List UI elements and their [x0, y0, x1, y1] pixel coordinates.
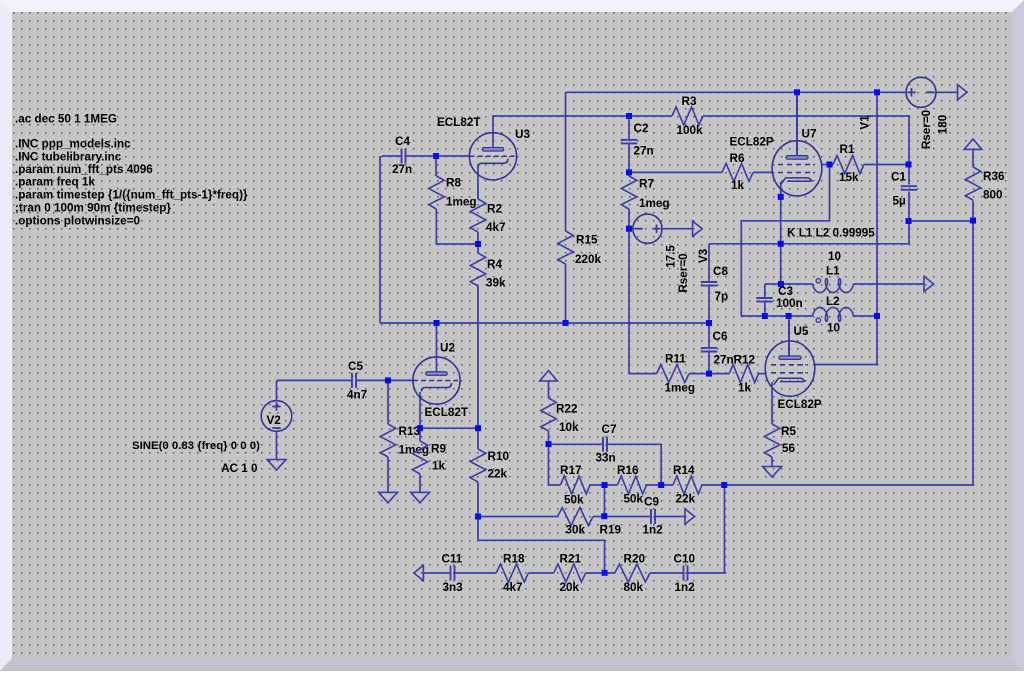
capacitor C11 [451, 566, 455, 581]
svg-text:R5: R5 [781, 425, 796, 438]
port flag above R36 [964, 139, 982, 150]
value 10 of L1 [828, 250, 842, 263]
svg-text:R3: R3 [682, 95, 697, 108]
value 80k of R20 [624, 581, 644, 594]
wire C10 to corner up [688, 485, 725, 573]
label L1 [826, 265, 840, 278]
svg-text:4k7: 4k7 [503, 581, 523, 594]
label V1 [859, 115, 872, 130]
wire C4 left vertical rail [379, 156, 381, 323]
label R11 [665, 352, 686, 365]
wire R1 to C1 top [864, 164, 909, 166]
label C10 [674, 552, 696, 565]
label R6 [730, 152, 745, 165]
wire R13 top lead [387, 380, 389, 424]
resistor R2 [470, 199, 485, 232]
wire U3 cathode to R2 [477, 166, 479, 199]
svg-text:U5: U5 [794, 325, 809, 338]
wire V3 node down to R11 corner [629, 229, 657, 374]
label U7 [802, 128, 817, 141]
label R14 [673, 464, 695, 477]
wire top supply rail [566, 91, 907, 93]
svg-text:20k: 20k [560, 581, 580, 594]
wire U7 grid to R1 [822, 164, 834, 166]
value 1k of R9 [432, 459, 446, 472]
tube U2 ECL82T triode [413, 357, 460, 404]
wire R16 to R14 [647, 484, 674, 486]
resistor R10 [470, 449, 485, 482]
capacitor C8 [701, 282, 717, 286]
junction node R19-C9 [601, 513, 607, 519]
value 39k of R4 [486, 277, 506, 290]
svg-text:R20: R20 [624, 552, 646, 565]
junction node U5 plate on L2 row [786, 313, 792, 319]
value SINE of V2 [132, 440, 260, 452]
label R15 [576, 234, 598, 247]
wire R12 to U5 grid [759, 373, 767, 375]
value 100k of R3 [677, 124, 704, 137]
value 22k of R10 [488, 468, 508, 481]
svg-text:.INC ppp_models.inc: .INC ppp_models.inc [15, 138, 131, 151]
label R17 [560, 464, 581, 477]
wire R18 to R21 [528, 572, 553, 574]
label C9 [644, 495, 659, 508]
label ECL82P of U5 [778, 398, 822, 411]
wire L1 row left [765, 283, 813, 285]
junction node U2 plate on bottom rail [434, 320, 440, 326]
value 3n3 of C11 [443, 581, 464, 594]
wire C4 to R8 junction to U3 grid [406, 155, 471, 157]
wire R7 top lead [628, 172, 630, 176]
wire R7 bottom to V3 node [628, 209, 630, 229]
tube U3 ECL82T triode [469, 133, 516, 180]
label R8 [446, 177, 461, 190]
svg-text:R18: R18 [503, 552, 525, 565]
svg-text:27n: 27n [714, 353, 734, 366]
capacitor C1 [901, 186, 917, 190]
wire C2 column top [628, 116, 630, 140]
wire R11 to R12 [689, 373, 729, 375]
junction node R10-R19 row [475, 514, 481, 520]
capacitor C5 [352, 373, 356, 388]
value 1n2 of C9 [643, 524, 664, 537]
value 10 of L2 [827, 322, 841, 335]
wire V2 top lead [276, 380, 278, 401]
wire C5 to U2 grid [356, 379, 414, 381]
svg-text:L1: L1 [826, 265, 840, 278]
resistor R16 [617, 476, 646, 494]
resistor R4 [470, 253, 485, 286]
wire R4 down through rail to R10 node [477, 286, 479, 449]
svg-text:17.5: 17.5 [665, 245, 678, 268]
svg-text:R1: R1 [840, 143, 855, 156]
svg-text:27n: 27n [392, 163, 412, 176]
value 4k7 of R18 [503, 581, 523, 594]
svg-text:U3: U3 [515, 128, 530, 141]
directive text '.options plotwinsize=0' [15, 215, 141, 228]
wire R8 bottom to R2-R4 node [436, 209, 478, 244]
junction node R17-R16 [602, 482, 608, 488]
wire R19 row left [478, 516, 558, 518]
svg-text:R8: R8 [446, 177, 461, 190]
value 20k of R21 [560, 581, 580, 594]
label ECL82T of U3 [437, 116, 481, 129]
svg-text:39k: 39k [486, 277, 506, 290]
resistor R21 [554, 564, 586, 582]
wire grid node down and across to L2 row [741, 165, 829, 317]
svg-text:R10: R10 [488, 450, 510, 463]
wire L2 row left [741, 315, 812, 317]
ground at R13 [379, 492, 398, 503]
value 1k of R6 [731, 179, 745, 192]
label U3 [515, 128, 530, 141]
svg-text:30k: 30k [566, 524, 586, 537]
junction node C2 top on B+ feed [626, 113, 632, 119]
wire V2 to C5 [277, 379, 353, 381]
wire C7 right to R16-R14 node [607, 444, 661, 485]
tube U5 ECL82P pentode [765, 341, 815, 396]
value 800 of R36 [983, 189, 1003, 202]
svg-text:33n: 33n [596, 451, 616, 464]
resistor R13 [380, 424, 395, 457]
wire C1 column [908, 165, 910, 185]
svg-text:K L1 L2 0.99995: K L1 L2 0.99995 [787, 227, 875, 240]
capacitor C10 [684, 566, 688, 581]
svg-text:R14: R14 [673, 464, 695, 477]
wire C9 to port [655, 516, 685, 518]
svg-text:1meg: 1meg [665, 382, 696, 395]
resistor R11 [657, 365, 689, 383]
wire C4 row to U3 grid [382, 155, 402, 157]
directive text '.param freq 1k' [15, 176, 95, 189]
value Rser=0 of V1 [920, 109, 933, 149]
svg-text:C7: C7 [602, 423, 617, 436]
resistor R17 [560, 476, 590, 494]
wire C9 left [605, 516, 652, 518]
wire U2 cathode lead [419, 392, 421, 441]
junction node C8-C6 on bottom rail [706, 320, 712, 326]
wire V1 to port [936, 91, 958, 93]
svg-text:C6: C6 [713, 330, 728, 343]
svg-text:15k: 15k [839, 171, 859, 184]
svg-text:27n: 27n [634, 145, 654, 158]
wire R10 bottom [477, 482, 479, 517]
label R4 [487, 258, 502, 271]
wire R15 column top [565, 116, 567, 231]
svg-text:1k: 1k [738, 381, 752, 394]
svg-text:5µ: 5µ [893, 194, 907, 207]
value 50k of R16 [624, 492, 644, 505]
junction node R15 bottom on rail [563, 320, 569, 326]
svg-text:U7: U7 [802, 128, 817, 141]
value 7p of C8 [715, 290, 729, 303]
label R16 [617, 464, 639, 477]
junction node C3 bottom on L2 row [762, 313, 768, 319]
svg-text:ECL82T: ECL82T [425, 406, 469, 419]
wire R5 to ground [771, 457, 773, 467]
window frame bevel right [1012, 0, 1024, 671]
wire R36 top lead [972, 149, 974, 167]
svg-text:ECL82P: ECL82P [730, 136, 774, 149]
wire R15 column bottom [565, 264, 567, 323]
wire left port to C11 [423, 572, 450, 574]
wire C7 node down to R17 [549, 444, 561, 485]
wire top rail [565, 92, 567, 116]
value 180 of V1 [937, 114, 950, 134]
svg-text:50k: 50k [564, 494, 584, 507]
svg-text:.ac dec 50 1 1MEG: .ac dec 50 1 1MEG [15, 113, 117, 126]
junction node R7-V3 [626, 226, 632, 232]
label C7 [602, 423, 617, 436]
port flag at L1 output [924, 276, 934, 291]
resistor R22 [541, 398, 556, 431]
wire R13 to ground [387, 457, 389, 492]
wire U2 plate lead [436, 323, 438, 373]
value 1meg of R11 [665, 382, 696, 395]
svg-text:.INC tubelibrary.inc: .INC tubelibrary.inc [15, 151, 122, 164]
junction node B+ column on top rail [874, 89, 880, 95]
value 33n of C7 [596, 451, 616, 464]
wire U3 plate lead and B+ feed to R3 [493, 116, 672, 148]
capacitor C2 [621, 140, 637, 144]
wire R36 bottom lead [972, 200, 974, 221]
wire C11 to R18 [455, 572, 497, 574]
label L2 [826, 295, 840, 308]
capacitor C4 [402, 149, 406, 164]
wire V2 bottom to ground [276, 432, 278, 460]
junction node R14 right feedback [721, 482, 727, 488]
value 1k of R12 [738, 381, 752, 394]
label R5 [781, 425, 796, 438]
label R7 [639, 178, 654, 191]
wire R22 port lead [548, 381, 550, 398]
resistor R19 [558, 508, 593, 526]
label R10 [488, 450, 510, 463]
directive text '.ac dec 50 1 1MEG' [15, 113, 117, 126]
svg-text:R21: R21 [560, 552, 582, 565]
label U2 [440, 341, 455, 354]
wire L2 right to B+ column [854, 315, 878, 317]
resistor R12 [729, 365, 758, 383]
junction node U7 plate on top rail [794, 89, 800, 95]
directive text '.param num_fft_pts 4096' [15, 163, 153, 176]
value 4n7 of C5 [347, 389, 367, 402]
svg-text:;tran 0 100m 90m {timestep}: ;tran 0 100m 90m {timestep} [15, 202, 171, 215]
svg-text:R6: R6 [730, 152, 745, 165]
wire R22 bottom to C7 node [548, 431, 550, 444]
label R19 [600, 524, 622, 537]
svg-text:C4: C4 [395, 135, 410, 148]
wire U5 plate lead [788, 316, 790, 356]
voltage source V1 [906, 77, 936, 107]
junction node cathode wire on R10 column [475, 425, 481, 431]
svg-text:R9: R9 [431, 443, 446, 456]
wire B+ column right [815, 92, 878, 364]
directive text '.INC tubelibrary.inc' [15, 151, 122, 164]
svg-text:V2: V2 [267, 414, 282, 427]
value Rser=0 of V3 [677, 253, 690, 293]
svg-text:C11: C11 [442, 552, 463, 565]
wire V3 to port [662, 228, 693, 230]
svg-text:1n2: 1n2 [643, 524, 664, 537]
wire R14 to feedback column [702, 221, 973, 485]
label C8 [713, 265, 728, 278]
port flag at V3 node [693, 221, 703, 236]
resistor R36 [965, 167, 980, 200]
svg-text:56: 56 [782, 442, 796, 455]
svg-text:R11: R11 [665, 352, 686, 365]
value 27n of C4 [392, 163, 412, 176]
svg-text:Rser=0: Rser=0 [920, 109, 933, 149]
junction node R22-C7 [546, 441, 552, 447]
wire C1 bottom node to R36 [909, 220, 973, 222]
capacitor C9 [651, 509, 655, 524]
value 220k of R15 [575, 253, 602, 266]
svg-text:3n3: 3n3 [443, 581, 464, 594]
junction node C2-R7-R6 [626, 169, 632, 175]
resistor R6 [722, 163, 753, 181]
wire C1 bottom to corner [908, 192, 910, 245]
resistor R3 [672, 107, 703, 125]
value 10k of R22 [559, 421, 579, 434]
svg-text:ECL82T: ECL82T [437, 116, 481, 129]
svg-text:800: 800 [983, 189, 1003, 202]
junction node C5-U2grid-R13 [385, 377, 391, 383]
svg-text:C1: C1 [891, 171, 906, 184]
wire C8 to rail node [708, 287, 710, 348]
wire jog to bottom row [478, 517, 605, 573]
label C4 [395, 135, 410, 148]
svg-text:22k: 22k [676, 492, 696, 505]
wire U7 cathode lead [780, 182, 782, 197]
wire R2 to R4 [477, 232, 479, 253]
svg-text:100k: 100k [677, 124, 704, 137]
wire R6 left lead [629, 171, 722, 173]
junction node cathode column on L1 row [778, 281, 784, 287]
ground at R9 [411, 492, 430, 503]
svg-text:.options plotwinsize=0: .options plotwinsize=0 [15, 215, 141, 228]
label V2 [267, 414, 282, 427]
junction node U2 cathode R9 [417, 425, 423, 431]
svg-text:C10: C10 [674, 552, 696, 565]
svg-text:AC 1 0: AC 1 0 [221, 462, 258, 475]
value 4k7 of R2 [486, 221, 506, 234]
label R36 [983, 170, 1005, 183]
svg-text:SINE(0 0.83 {freq} 0 0 0): SINE(0 0.83 {freq} 0 0 0) [132, 440, 260, 452]
ground at R5 [763, 467, 782, 478]
voltage source V2 [261, 401, 292, 432]
junction node R1-C1 top [906, 162, 912, 168]
svg-text:1meg: 1meg [639, 197, 670, 210]
svg-text:7p: 7p [715, 290, 729, 303]
resistor R1 [833, 156, 864, 174]
svg-text:U2: U2 [440, 341, 455, 354]
svg-text:1k: 1k [432, 459, 446, 472]
value 50k of R17 [564, 494, 584, 507]
svg-text:80k: 80k [624, 581, 644, 594]
port flag at V1 output [958, 85, 968, 100]
value 30k of R19 [566, 524, 586, 537]
svg-text:.param num_fft_pts 4096: .param num_fft_pts 4096 [15, 163, 153, 176]
voltage source V3 [633, 214, 662, 243]
svg-text:R22: R22 [556, 403, 578, 416]
value 22k of R14 [676, 492, 696, 505]
svg-text:10k: 10k [559, 421, 579, 434]
value 1n2 of C10 [675, 581, 696, 594]
label R20 [624, 552, 646, 565]
svg-text:R17: R17 [560, 464, 581, 477]
label ECL82T of U2 [425, 406, 469, 419]
svg-text:V1: V1 [859, 115, 872, 130]
wire C2 to R6 node [628, 143, 630, 172]
svg-text:ECL82P: ECL82P [778, 398, 822, 411]
label R9 [431, 443, 446, 456]
label C3 [778, 285, 793, 298]
wire R17 node down to R19 node [604, 485, 606, 517]
inductor L2 [813, 307, 854, 322]
directive text '.INC ppp_models.inc' [15, 138, 131, 151]
svg-text:.param freq 1k: .param freq 1k [15, 176, 95, 189]
label R21 [560, 552, 582, 565]
ground at V2 [267, 460, 286, 471]
label R18 [503, 552, 525, 565]
wire U7 cathode down to L1 row [780, 197, 782, 284]
resistor R15 [558, 231, 573, 264]
wire R9 to ground [419, 474, 421, 492]
junction node U7 grid R1 [827, 162, 833, 168]
window frame bevel top [0, 0, 1024, 12]
value 15k of R1 [839, 171, 859, 184]
svg-text:Rser=0: Rser=0 [677, 253, 690, 293]
svg-text:R19: R19 [600, 524, 622, 537]
tube U7 ECL82P pentode [772, 141, 822, 196]
wire C6 bottom lead [708, 353, 710, 374]
svg-text:C5: C5 [348, 360, 363, 373]
window frame bevel bottom [0, 659, 1024, 672]
svg-text:C8: C8 [713, 265, 728, 278]
svg-text:1k: 1k [731, 179, 745, 192]
svg-text:10: 10 [827, 322, 841, 335]
svg-text:R7: R7 [639, 178, 654, 191]
junction node L2 right on B+ column [874, 313, 880, 319]
value 27n of C2 [634, 145, 654, 158]
value 27n of C6 [714, 353, 734, 366]
directive text ';tran 0 100m 90m {timest' [15, 202, 171, 215]
label ECL82P of U7 [730, 136, 774, 149]
svg-text:180: 180 [937, 114, 950, 134]
svg-text:R12: R12 [734, 353, 756, 366]
value 1meg of R8 [446, 196, 477, 209]
port flag at bottom-left input [414, 565, 424, 580]
junction node cathode column on C8 row [778, 241, 784, 247]
svg-text:22k: 22k [488, 468, 508, 481]
resistor R9 [412, 441, 427, 474]
wire C7 left lead [549, 443, 604, 445]
svg-text:50k: 50k [624, 492, 644, 505]
svg-text:4k7: 4k7 [486, 221, 506, 234]
capacitor C6 [701, 348, 717, 352]
directive text '.param timestep {1/({num' [15, 189, 248, 202]
label C5 [348, 360, 363, 373]
junction node R36 bottom [970, 218, 976, 224]
label C6 [713, 330, 728, 343]
svg-text:1n2: 1n2 [675, 581, 696, 594]
wire R3 right to C1 top corner [703, 116, 909, 165]
svg-text:R36: R36 [983, 170, 1005, 183]
svg-text:4n7: 4n7 [347, 389, 367, 402]
svg-text:R15: R15 [576, 234, 598, 247]
label U5 [794, 325, 809, 338]
